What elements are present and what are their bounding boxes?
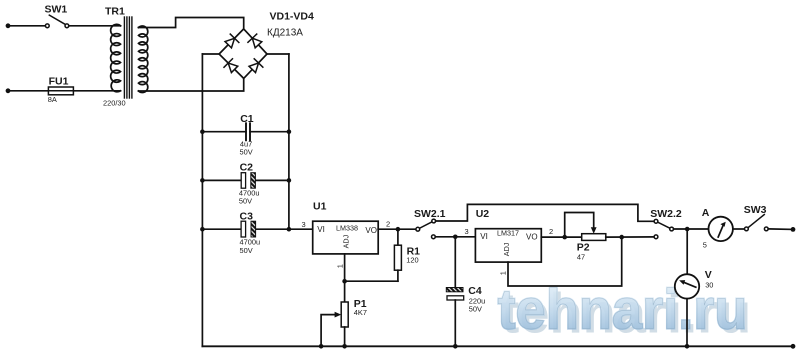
svg-text:C3: C3 [240, 211, 254, 223]
node C4 top [453, 235, 458, 240]
svg-text:SW2.1: SW2.1 [414, 208, 446, 220]
wire C3 right to U1 pin 3 [256, 228, 313, 230]
input terminal bottom [6, 88, 11, 93]
node P2 right / ADJ riser [619, 235, 624, 240]
input terminal top [6, 23, 11, 28]
wire R1 to ADJ junction [345, 280, 398, 282]
transformer secondary winding [139, 26, 148, 93]
ammeter A [709, 217, 733, 241]
potentiometer P2 [582, 234, 606, 241]
wire U2 ADJ loop [508, 237, 622, 286]
switch SW2.1 [416, 219, 436, 239]
regulator U1 LM338 body [313, 221, 379, 254]
capacitor C4 [446, 288, 463, 292]
svg-text:50V: 50V [240, 148, 253, 157]
wire C4 top [454, 237, 456, 288]
node P1 bottom junction [342, 344, 347, 349]
svg-text:47: 47 [577, 253, 585, 262]
wire P2 right to SW2.2 [606, 236, 654, 238]
node P1 wiper junction [319, 344, 324, 349]
wire C4 bottom [454, 300, 456, 346]
wire secondary bottom to bridge bottom [139, 78, 244, 91]
svg-text:C1: C1 [240, 113, 254, 125]
svg-text:LM338: LM338 [336, 224, 358, 233]
wire top-left to SW1 [8, 25, 45, 27]
svg-text:FU1: FU1 [49, 76, 69, 88]
node C2 right junction [287, 178, 292, 183]
bottom rail [202, 345, 793, 347]
wire SW3 to output terminal [768, 228, 793, 231]
left rail [201, 54, 203, 346]
regulator U2 LM317 body [475, 229, 541, 262]
svg-text:TR1: TR1 [105, 5, 125, 17]
wire C2 left [202, 179, 241, 181]
wire bottom-left through fuse to primary bottom [8, 90, 121, 92]
wire bridge left corner to left rail [202, 53, 219, 55]
wire ammeter to SW3 [733, 228, 745, 230]
P2 wiper arrow [591, 227, 597, 233]
node R1 top [396, 227, 401, 232]
svg-text:VD1-VD4: VD1-VD4 [270, 11, 315, 23]
svg-text:ADJ: ADJ [502, 242, 511, 256]
wire R1 bottom [397, 270, 399, 281]
switch SW3 [745, 215, 769, 231]
svg-text:2: 2 [549, 227, 553, 236]
svg-text:30: 30 [705, 281, 713, 290]
svg-text:120: 120 [406, 255, 418, 264]
svg-text:V: V [705, 269, 712, 281]
svg-text:ADJ: ADJ [342, 234, 351, 248]
diode VD1 (top-left edge) [224, 34, 239, 49]
voltmeter V [675, 274, 699, 298]
capacitor C2 [241, 173, 245, 189]
wire P1 wiper [321, 315, 336, 347]
wire P2 wiper loop [565, 213, 594, 238]
svg-text:U1: U1 [313, 200, 327, 212]
wire C1 left [202, 131, 246, 133]
fuse FU1 [48, 87, 73, 95]
svg-text:8A: 8A [48, 95, 57, 104]
svg-text:VO: VO [365, 226, 377, 235]
wire secondary top to bridge top [139, 18, 244, 29]
diode VD2 (top-right edge) [248, 34, 263, 49]
svg-text:SW1: SW1 [45, 4, 68, 16]
node C1 left junction [200, 129, 205, 134]
svg-text:5: 5 [703, 240, 707, 249]
node ADJ/R1 junction [342, 279, 347, 284]
wire C2 right [255, 179, 289, 181]
node P2 left [562, 235, 567, 240]
right rail [288, 54, 290, 229]
bridge VD1-VD4 diamond [219, 29, 267, 79]
svg-text:50V: 50V [240, 246, 253, 255]
wire C3 left [202, 228, 241, 230]
svg-text:3: 3 [302, 220, 306, 229]
node voltmeter tap [685, 227, 690, 232]
svg-text:LM317: LM317 [497, 228, 519, 237]
switch SW2.2 [654, 219, 673, 238]
wire bridge right corner to right rail [267, 53, 289, 55]
svg-text:VI: VI [317, 225, 325, 234]
svg-text:SW3: SW3 [744, 204, 767, 216]
wire voltmeter to bottom rail [686, 299, 688, 347]
potentiometer P1 [341, 302, 348, 327]
resistor R1 [394, 245, 401, 270]
svg-text:SW2.2: SW2.2 [650, 208, 682, 220]
svg-text:3: 3 [465, 227, 469, 236]
svg-text:2: 2 [386, 220, 390, 229]
svg-text:1: 1 [499, 271, 508, 275]
node C3 left junction [200, 227, 205, 232]
svg-text:50V: 50V [469, 305, 482, 314]
wire SW2.2 to ammeter [674, 228, 709, 230]
wire U1 VO to SW2.1 [378, 228, 416, 230]
node C3 right junction [287, 227, 292, 232]
svg-text:50V: 50V [239, 197, 252, 206]
wire U2 VO to P2 [541, 236, 581, 238]
svg-text:VO: VO [526, 233, 538, 242]
diode VD3 (bottom-left edge) [224, 59, 239, 74]
P1 wiper arrow [335, 312, 342, 318]
wire C1 right [250, 131, 289, 133]
wire P1 bottom [344, 327, 346, 346]
capacitor C1 [245, 123, 247, 140]
diode VD4 (bottom-right edge) [248, 59, 263, 74]
svg-text:КД213А: КД213А [267, 27, 303, 38]
svg-text:VI: VI [480, 232, 488, 241]
wire R1 top [397, 229, 399, 245]
wire U1 ADJ down [344, 254, 346, 302]
wire SW1 to transformer primary top [69, 25, 121, 27]
wire to voltmeter [686, 229, 688, 274]
svg-text:4K7: 4K7 [354, 308, 367, 317]
output terminal bottom [791, 344, 796, 349]
transformer TR1 primary winding [111, 24, 121, 91]
svg-text:1: 1 [336, 264, 345, 268]
watermark tehnari.ru [498, 278, 752, 346]
node C1 right junction [287, 129, 292, 134]
wire SW2.1 lower to U2 VI [435, 236, 475, 238]
svg-text:220/30: 220/30 [103, 99, 126, 108]
transformer core [123, 17, 125, 98]
bypass wire top rail [436, 204, 654, 221]
capacitor C3 [241, 221, 246, 237]
node C2 left junction [200, 178, 205, 183]
svg-text:A: A [702, 207, 710, 219]
switch SW1 [45, 15, 68, 28]
node C4 bottom junction [453, 344, 458, 349]
output terminal top [791, 227, 796, 232]
svg-text:C2: C2 [240, 161, 254, 173]
svg-text:U2: U2 [476, 208, 490, 220]
